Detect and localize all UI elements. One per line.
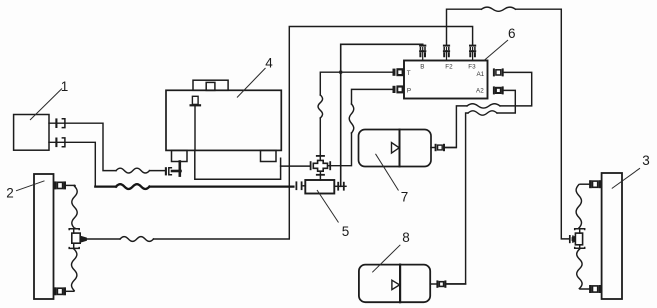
svg-text:A2: A2 bbox=[476, 87, 484, 94]
svg-text:F2: F2 bbox=[445, 63, 453, 70]
svg-text:F3: F3 bbox=[468, 63, 476, 70]
svg-text:4: 4 bbox=[265, 55, 273, 70]
svg-text:5: 5 bbox=[342, 224, 350, 239]
svg-text:6: 6 bbox=[508, 26, 516, 41]
svg-text:7: 7 bbox=[401, 189, 409, 204]
svg-text:8: 8 bbox=[402, 230, 410, 245]
svg-text:1: 1 bbox=[61, 79, 69, 94]
svg-text:B: B bbox=[420, 64, 424, 71]
svg-text:T: T bbox=[407, 70, 411, 77]
svg-text:A1: A1 bbox=[476, 71, 484, 78]
svg-text:P: P bbox=[407, 87, 411, 94]
svg-text:2: 2 bbox=[6, 185, 14, 200]
svg-text:3: 3 bbox=[642, 153, 650, 168]
